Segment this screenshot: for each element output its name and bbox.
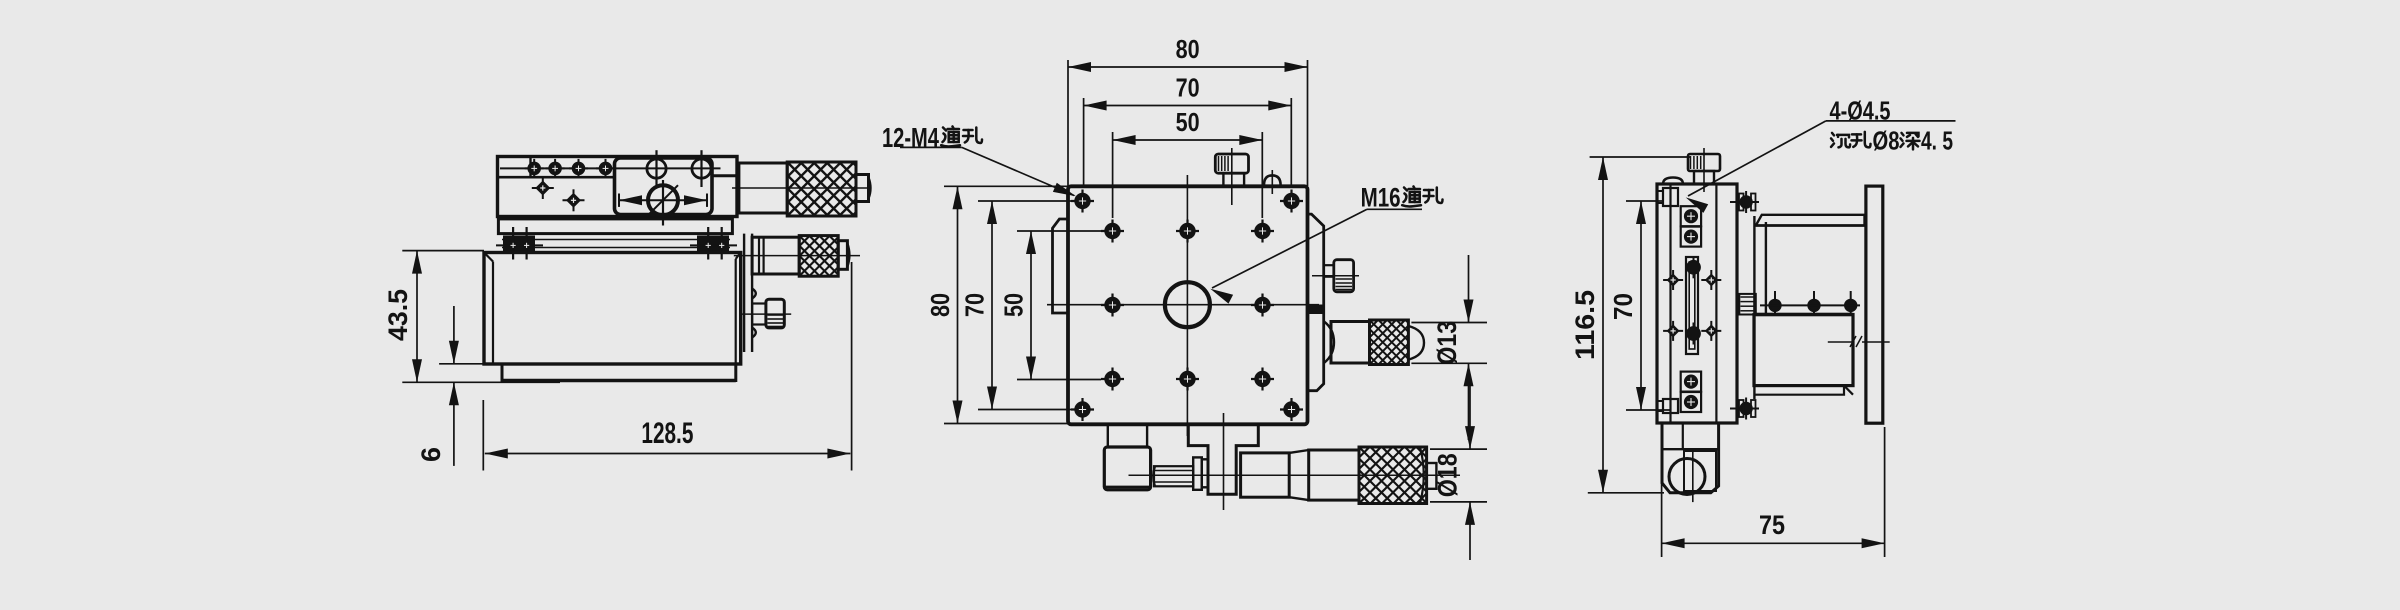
svg-text:Ø18: Ø18 [1433,453,1463,497]
svg-text:Ø8: Ø8 [1873,125,1900,155]
svg-text:50: 50 [999,293,1029,317]
svg-text:70: 70 [1608,293,1638,320]
svg-text:70: 70 [960,293,990,317]
svg-text:12-M4: 12-M4 [882,122,939,153]
svg-text:75: 75 [1759,510,1785,540]
svg-text:4. 5: 4. 5 [1921,125,1953,155]
svg-text:80: 80 [925,293,955,317]
svg-text:6: 6 [416,447,446,462]
svg-text:116.5: 116.5 [1570,290,1600,360]
svg-text:70: 70 [1176,73,1200,103]
svg-text:Ø13: Ø13 [1432,321,1462,365]
svg-text:50: 50 [1176,107,1200,137]
svg-text:128.5: 128.5 [641,417,693,450]
svg-text:80: 80 [1176,34,1200,64]
svg-text:43.5: 43.5 [383,289,413,341]
svg-text:M16: M16 [1361,183,1401,213]
